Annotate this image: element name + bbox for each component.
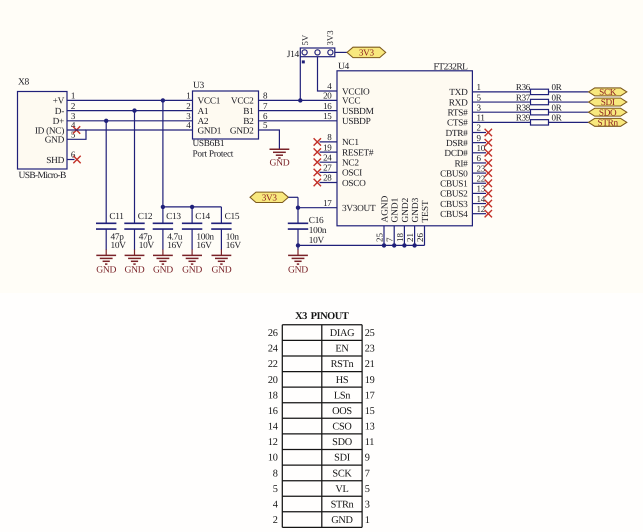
J14 pin 2 circle [315, 50, 320, 55]
svg-text:0R: 0R [552, 92, 562, 102]
svg-text:GND: GND [125, 264, 145, 275]
svg-text:3V3: 3V3 [262, 192, 278, 202]
svg-text:19: 19 [323, 142, 332, 152]
svg-text:VCC2: VCC2 [231, 97, 254, 107]
svg-text:25: 25 [365, 328, 375, 339]
svg-text:17: 17 [323, 198, 332, 208]
junction dot 5V at VCC row [298, 98, 302, 102]
svg-text:CBUS2: CBUS2 [440, 190, 468, 200]
ground symbol under C14 [182, 255, 202, 264]
port flag SDO [589, 108, 627, 116]
svg-text:R39: R39 [516, 113, 531, 123]
U4 unused right pin stubs with no-connect X [472, 132, 486, 134]
svg-text:GND3: GND3 [411, 197, 421, 222]
wire D+ drop to C11 [105, 121, 107, 224]
svg-text:26: 26 [268, 328, 278, 339]
svg-text:STRn: STRn [331, 499, 354, 510]
svg-text:20: 20 [268, 375, 278, 386]
U4 bottom pin AGND stub [383, 226, 385, 246]
wire USBDM net U3.7 to U4.16 [259, 110, 338, 112]
svg-text:STRn: STRn [598, 117, 619, 127]
wire U3.5 GND2 to ground [259, 130, 280, 149]
svg-text:22: 22 [268, 359, 278, 370]
svg-text:USBDP: USBDP [342, 117, 371, 127]
wire J14.3 to 3V3 flag [335, 51, 347, 53]
junction dot 3V3OUT branch [296, 206, 300, 210]
svg-text:23: 23 [365, 344, 375, 355]
svg-text:GND2: GND2 [401, 197, 411, 222]
junction dot at C14 branch [190, 205, 194, 209]
svg-text:2: 2 [273, 515, 278, 526]
svg-text:CBUS4: CBUS4 [440, 210, 468, 220]
svg-text:J14: J14 [287, 50, 300, 60]
svg-text:10V: 10V [139, 241, 155, 251]
resistor R38 body [531, 110, 549, 115]
svg-text:GND1: GND1 [391, 197, 401, 222]
wire branch down to C15 [220, 207, 222, 223]
port flag STRn [589, 118, 627, 126]
svg-text:GND: GND [182, 264, 202, 275]
svg-text:3V3: 3V3 [325, 30, 335, 46]
ground bus under U4 [298, 244, 425, 246]
svg-text:13: 13 [365, 422, 375, 433]
svg-text:B1: B1 [243, 107, 254, 117]
svg-text:26: 26 [415, 233, 425, 243]
wire R38 to port SDO [549, 111, 589, 113]
svg-text:12: 12 [268, 437, 278, 448]
svg-text:10: 10 [268, 453, 278, 464]
svg-text:GND1: GND1 [198, 126, 222, 136]
wire 3V3 to U4 3V3OUT pin 17 [298, 207, 337, 209]
svg-text:X8: X8 [18, 78, 30, 88]
svg-text:10: 10 [477, 143, 486, 153]
svg-text:AGND: AGND [380, 195, 390, 222]
svg-text:SCK: SCK [332, 468, 352, 479]
svg-text:CBUS3: CBUS3 [440, 200, 468, 210]
IC U3 body [193, 91, 259, 139]
svg-text:10V: 10V [309, 236, 325, 246]
svg-text:NC1: NC1 [342, 138, 359, 148]
svg-text:SDO: SDO [599, 107, 617, 117]
wire 5V net U3.8 to U4.20 VCC [259, 99, 338, 101]
svg-text:D-: D- [55, 107, 64, 117]
resistor R36 body [531, 89, 549, 94]
svg-text:18: 18 [395, 233, 405, 243]
svg-text:16V: 16V [196, 241, 212, 251]
wire 5V drop to C13 [162, 100, 164, 223]
capacitor C14 [182, 222, 202, 224]
wire R37 to port SDI [549, 101, 589, 103]
U4 unused left pin stubs with no-connect X [320, 141, 338, 143]
svg-text:CSO: CSO [332, 422, 352, 433]
svg-text:OOS: OOS [332, 406, 352, 417]
svg-text:C14: C14 [195, 212, 210, 222]
wire C16 to ground bus [297, 229, 299, 245]
J14 pin1 marker dot [302, 60, 305, 63]
svg-text:CBUS1: CBUS1 [440, 180, 468, 190]
wire J14.1 down to 5V net [299, 57, 301, 101]
wire J14.2 to U4 VCCIO pin 4 [318, 57, 338, 91]
svg-text:1: 1 [71, 91, 75, 101]
junction dot +V drop [161, 98, 165, 102]
wire U4 to R36 [472, 91, 530, 93]
wire C13 to ground [162, 229, 164, 250]
wire D- net X8.2 to U3.2 [67, 110, 193, 112]
svg-text:RXD: RXD [449, 98, 468, 108]
wire 5V branch C13-C15 [163, 206, 222, 208]
svg-text:16: 16 [268, 406, 278, 417]
U4 bottom pin TEST stub [424, 226, 426, 246]
svg-text:VL: VL [335, 484, 348, 495]
svg-text:1: 1 [477, 82, 481, 92]
svg-text:R36: R36 [516, 82, 531, 92]
svg-text:27: 27 [323, 163, 332, 173]
svg-text:2: 2 [186, 101, 190, 111]
svg-text:A1: A1 [198, 107, 209, 117]
svg-text:C16: C16 [309, 216, 324, 226]
capacitor C13 [153, 222, 173, 224]
wire U4 to R37 [472, 101, 530, 103]
svg-text:VCC: VCC [342, 97, 360, 107]
svg-text:TEST: TEST [421, 200, 431, 223]
svg-text:CBUS0: CBUS0 [440, 169, 468, 179]
svg-text:2: 2 [477, 123, 481, 133]
svg-text:TXD: TXD [449, 88, 468, 98]
svg-text:SHD: SHD [46, 156, 64, 166]
svg-text:13: 13 [477, 184, 486, 194]
capacitor C16 [288, 222, 308, 224]
svg-text:USB-Micro-B: USB-Micro-B [19, 171, 67, 181]
svg-text:GND2: GND2 [230, 126, 254, 136]
svg-text:USBDM: USBDM [342, 107, 374, 117]
svg-text:7: 7 [365, 468, 370, 479]
wire U4 to R38 [472, 111, 530, 113]
resistor R37 body [531, 99, 549, 104]
svg-text:5V: 5V [300, 34, 310, 45]
svg-text:Port Protect: Port Protect [193, 149, 234, 159]
no-connect X on X8 pin 6 SHD [73, 156, 80, 163]
svg-text:EN: EN [335, 344, 349, 355]
svg-text:28: 28 [323, 173, 332, 183]
X8 pin4 stub [67, 129, 86, 131]
svg-text:C15: C15 [225, 212, 240, 222]
port flag SCK [589, 88, 627, 96]
svg-text:15: 15 [323, 111, 332, 121]
svg-text:18: 18 [268, 390, 278, 401]
svg-text:20: 20 [323, 91, 332, 101]
svg-text:USB6B1: USB6B1 [193, 139, 225, 149]
svg-text:SDO: SDO [332, 437, 353, 448]
svg-text:LSn: LSn [334, 390, 350, 401]
svg-text:100n: 100n [309, 226, 327, 236]
svg-text:21: 21 [405, 233, 415, 242]
connector X8 body [18, 92, 68, 170]
svg-text:RESET#: RESET# [342, 148, 374, 158]
svg-text:10V: 10V [111, 241, 127, 251]
svg-text:SDI: SDI [601, 97, 615, 107]
svg-text:2: 2 [71, 101, 75, 111]
svg-text:C13: C13 [166, 212, 181, 222]
svg-text:16V: 16V [226, 241, 242, 251]
capacitor C15 [211, 222, 231, 224]
svg-text:8: 8 [273, 468, 278, 479]
wire C15 to ground [220, 229, 222, 250]
svg-text:CTS#: CTS# [447, 119, 468, 129]
U4 bottom pin GND3 stub [414, 226, 416, 246]
svg-text:GND: GND [45, 136, 65, 146]
svg-text:11: 11 [365, 437, 374, 448]
svg-text:SCK: SCK [599, 87, 617, 97]
svg-text:3V3: 3V3 [359, 48, 375, 58]
svg-text:OSCO: OSCO [342, 179, 366, 189]
svg-text:19: 19 [365, 375, 375, 386]
svg-text:3: 3 [365, 499, 370, 510]
svg-text:GND: GND [269, 158, 289, 169]
wire R39 to port STRn [549, 121, 589, 123]
capacitor C11 [96, 222, 116, 224]
wire U4 to R39 [472, 121, 530, 123]
junction dots on ground bus [382, 243, 386, 247]
svg-text:22: 22 [477, 173, 485, 183]
power flag 3V3 top [347, 47, 386, 57]
svg-text:GND: GND [211, 264, 231, 275]
svg-text:RSTn: RSTn [331, 359, 354, 370]
wire R36 to port SCK [549, 91, 589, 93]
svg-text:9: 9 [365, 453, 370, 464]
svg-text:5: 5 [365, 484, 370, 495]
wire C12 to ground [134, 229, 136, 250]
svg-text:NC2: NC2 [342, 159, 359, 169]
svg-text:DIAG: DIAG [330, 328, 355, 339]
svg-text:21: 21 [365, 359, 375, 370]
svg-text:X3 PINOUT: X3 PINOUT [295, 311, 349, 322]
svg-text:RTS#: RTS# [448, 109, 469, 119]
J14 pin 3 circle [328, 50, 333, 55]
X8 pin6 stub [67, 159, 75, 161]
svg-text:DTR#: DTR# [445, 129, 468, 139]
power flag 3V3 at C16 [250, 192, 288, 202]
svg-text:23: 23 [477, 163, 486, 173]
wire C14 to ground [191, 229, 193, 250]
table X3 grid [282, 325, 362, 528]
junction dot D+ drop [104, 119, 108, 123]
U4 bottom pin GND2 stub [403, 226, 405, 246]
svg-text:1: 1 [365, 515, 370, 526]
svg-text:0R: 0R [552, 82, 562, 92]
svg-text:U3: U3 [193, 81, 205, 91]
svg-text:12: 12 [477, 204, 485, 214]
svg-text:7: 7 [385, 237, 395, 242]
ground symbol under C16 [288, 255, 308, 264]
svg-text:RI#: RI# [454, 159, 468, 169]
wire D- drop to C12 [134, 111, 136, 224]
capacitor C12 [124, 222, 144, 224]
svg-text:DCD#: DCD# [444, 149, 468, 159]
junction dot ground bus at C16 [296, 243, 300, 247]
ground symbol under C13 [153, 255, 173, 264]
svg-text:24: 24 [268, 344, 278, 355]
ground symbol under C11 [96, 255, 116, 264]
J14 pin 1 circle [302, 50, 307, 55]
svg-text:14: 14 [477, 194, 486, 204]
wire 3V3 vertical to C16 [297, 197, 299, 223]
ground symbol at U3 GND2 [270, 149, 290, 158]
U4 bottom pin GND1 stub [393, 226, 395, 246]
no-connect X on X8 pin 4 ID [73, 126, 80, 133]
svg-text:17: 17 [365, 390, 375, 401]
svg-text:R38: R38 [516, 102, 531, 112]
svg-text:HS: HS [336, 375, 349, 386]
svg-text:GND: GND [96, 264, 116, 275]
svg-text:15: 15 [365, 406, 375, 417]
wire D+ net X8.3 to U3.3 [67, 120, 193, 122]
ground symbol under C12 [125, 255, 145, 264]
wire GND net X8.5 jog to U3.4 [67, 130, 193, 139]
svg-text:SDI: SDI [334, 453, 351, 464]
svg-text:24: 24 [323, 152, 332, 162]
svg-text:DSR#: DSR# [446, 139, 468, 149]
resistor R39 body [531, 120, 549, 125]
svg-text:C11: C11 [109, 212, 124, 222]
svg-text:16V: 16V [167, 241, 183, 251]
svg-text:C12: C12 [138, 212, 153, 222]
svg-text:GND: GND [153, 264, 173, 275]
wire 3V3 flag to node [288, 196, 298, 198]
junction dot D- drop [132, 108, 136, 112]
ground symbol under C15 [212, 255, 232, 264]
svg-text:GND: GND [288, 264, 308, 275]
svg-text:4: 4 [273, 499, 278, 510]
port flag SDI [589, 98, 627, 106]
svg-text:16: 16 [323, 101, 332, 111]
IC U4 body [337, 71, 472, 226]
svg-text:25: 25 [374, 233, 384, 243]
wire USBDP net U3.6 to U4.15 [259, 120, 338, 122]
svg-text:GND: GND [331, 515, 353, 526]
svg-text:0R: 0R [552, 113, 562, 123]
wire C11 to ground [105, 229, 107, 250]
svg-text:5: 5 [273, 484, 278, 495]
junction dot at C13 branch [161, 205, 165, 209]
svg-text:OSCI: OSCI [342, 169, 362, 179]
svg-text:R37: R37 [516, 92, 531, 102]
svg-text:11: 11 [477, 113, 485, 123]
wire down to ground symbol [297, 245, 299, 250]
svg-text:0R: 0R [552, 102, 562, 112]
wire +V net X8.1 to U3.1 [67, 99, 193, 101]
svg-text:+V: +V [53, 97, 65, 107]
wire branch down to C14 [191, 207, 193, 223]
svg-text:1: 1 [186, 91, 190, 101]
svg-text:VCC1: VCC1 [198, 97, 221, 107]
svg-text:14: 14 [268, 422, 278, 433]
svg-text:3V3OUT: 3V3OUT [342, 204, 376, 214]
header J14 body [300, 48, 335, 57]
